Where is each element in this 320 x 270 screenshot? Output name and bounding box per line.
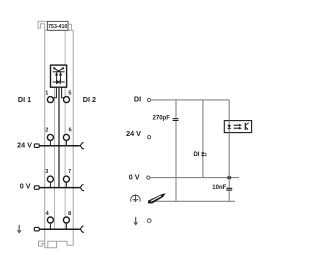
svg-text:DI: DI — [193, 151, 199, 158]
opto LED — [227, 125, 231, 128]
svg-text:3: 3 — [45, 169, 48, 175]
LED legs — [57, 76, 61, 83]
wire 270pF branch lower to shield bus — [175, 121, 177, 201]
wire opto output down — [228, 133, 230, 189]
wire row earth terminals 4-8 — [39, 228, 79, 230]
stub terminal 8 — [65, 223, 67, 229]
terminal 2 — [47, 134, 53, 140]
capacitor 270pF — [173, 119, 179, 121]
svg-text:5: 5 — [68, 91, 71, 97]
module housing 753-410 — [38, 21, 73, 247]
wire 10nF to shield bus — [228, 191, 230, 202]
svg-text:270pF: 270pF — [153, 115, 171, 121]
svg-text:DI: DI — [134, 94, 141, 103]
stub terminal 3 — [49, 182, 51, 188]
wire row 0V terminals 3-7 — [39, 187, 79, 189]
module left edge — [44, 24, 46, 248]
wire DI corner down to optocoupler — [228, 100, 230, 121]
svg-text:4: 4 — [46, 211, 50, 217]
stub terminal 6 — [65, 140, 67, 146]
wire: LED box pin to terminal 5 — [62, 87, 65, 98]
stub terminal 7 — [65, 182, 67, 188]
wire DI horizontal — [151, 99, 230, 101]
wire: LED box pin to terminal 1 — [53, 87, 57, 98]
terminal 5 — [64, 97, 70, 103]
svg-text:24 V: 24 V — [126, 129, 141, 138]
status LED box U-LED — [51, 65, 67, 87]
capacitor 10nF — [226, 188, 232, 190]
inner housing line right — [64, 30, 66, 229]
LED A light arrow — [55, 69, 61, 73]
clamp fork 0V — [79, 185, 84, 191]
svg-text:DI 2: DI 2 — [83, 95, 96, 104]
terminal 7 — [63, 176, 69, 182]
module right edge — [72, 30, 74, 245]
plug contact 24V — [34, 144, 39, 148]
LED B triangle — [59, 72, 62, 76]
DIN-rail foot profile — [39, 241, 74, 248]
svg-text:753-410: 753-410 — [48, 24, 67, 30]
terminal circle bottom right — [147, 219, 151, 223]
inner housing line left — [54, 87, 56, 229]
shield bus wire — [153, 200, 235, 202]
wire 0V horizontal — [150, 177, 239, 179]
svg-text:7: 7 — [68, 169, 71, 175]
LED DI indicator — [201, 152, 206, 156]
svg-text:0 V: 0 V — [129, 172, 140, 181]
wire: internal common bus to 0V — [58, 87, 60, 187]
diode D1 — [56, 80, 60, 84]
svg-text:6: 6 — [69, 128, 72, 134]
svg-text:DI 1: DI 1 — [18, 95, 31, 104]
terminal 3 — [47, 176, 53, 182]
opto light arrows — [234, 124, 240, 126]
wire row 24V terminals 2-6 — [39, 145, 79, 147]
plug contact 0V — [34, 186, 39, 190]
LED A triangle — [55, 72, 58, 76]
label box 753-410 — [47, 21, 68, 30]
diode row line — [53, 81, 65, 83]
terminal 4 — [47, 217, 53, 223]
earth arrow left — [17, 225, 22, 234]
svg-text:10nF: 10nF — [212, 185, 226, 191]
svg-text:0 V: 0 V — [20, 182, 31, 191]
functional earth symbol with arc — [131, 194, 140, 202]
earth arrow bottom right — [133, 217, 138, 226]
clamp fork earth — [79, 226, 84, 232]
LED pair cathode bar — [53, 71, 65, 73]
LED B light arrow — [57, 69, 63, 73]
svg-text:8: 8 — [68, 211, 71, 217]
wire 270pF branch upper — [175, 100, 177, 118]
wire DI-LED branch — [202, 100, 204, 178]
rail contact wedge — [148, 193, 166, 203]
svg-text:24 V: 24 V — [17, 140, 32, 149]
svg-text:2: 2 — [45, 128, 48, 134]
opto phototransistor — [244, 123, 246, 130]
terminal 8 — [63, 217, 69, 223]
terminal 6 — [63, 134, 69, 140]
latch hook top-left — [38, 21, 47, 28]
module top edge — [45, 29, 73, 31]
plug contact earth — [34, 227, 39, 231]
junction dot 0V/10nF — [227, 176, 231, 180]
clamp fork 24V — [79, 143, 84, 149]
terminal 1 — [47, 97, 53, 103]
terminal circle 24V right — [148, 136, 151, 139]
top step right of label box — [68, 24, 71, 30]
terminal circle DI — [147, 98, 150, 101]
terminal circle 0V right — [147, 176, 150, 179]
stub terminal 2 — [49, 140, 51, 146]
svg-text:1: 1 — [45, 91, 48, 97]
stub terminal 4 — [49, 223, 51, 229]
optocoupler U2 — [224, 121, 251, 133]
